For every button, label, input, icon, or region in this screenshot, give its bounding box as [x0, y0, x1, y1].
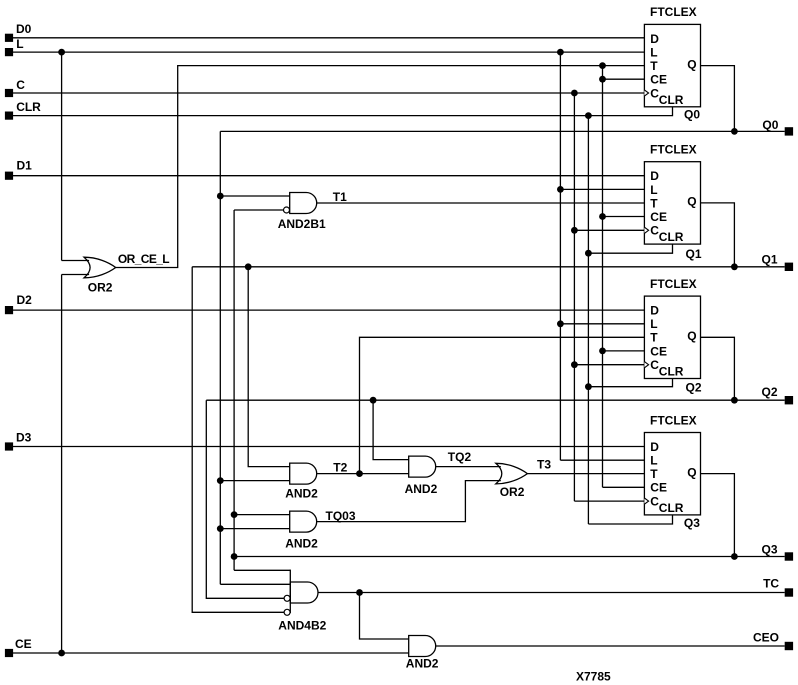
junction Q2/pin riser — [731, 397, 738, 404]
input pin CE — [5, 649, 13, 657]
wire Q3 line to pin Q3 — [234, 556, 785, 558]
junction CLR/U2 — [585, 250, 592, 257]
junction OR_CE_L bus top — [599, 62, 606, 69]
junction Q2 branch — [370, 397, 377, 404]
wire Q0 to AND2B1 top input — [220, 195, 289, 197]
junction Q0/AND2B1 — [217, 193, 224, 200]
junction OR_CE_L/U3.CE — [599, 348, 606, 355]
svg-text:CLR: CLR — [659, 501, 684, 515]
wire Q2 vertical to AND4B2 input 3 — [206, 400, 284, 598]
wire L to U4.L — [560, 459, 644, 461]
wire OR_CE_L to U2.CE — [603, 216, 645, 218]
svg-text:L: L — [650, 317, 657, 331]
wire CE net: pin CE to AND2 (CEO) bottom input — [13, 652, 409, 654]
svg-text:T: T — [650, 196, 658, 210]
svg-text:T3: T3 — [537, 457, 551, 471]
svg-text:TQ03: TQ03 — [326, 509, 356, 523]
wire L to U3.L — [560, 323, 644, 325]
svg-text:T1: T1 — [333, 190, 347, 204]
wire L to U2.L — [560, 188, 644, 190]
wire Q2 line to pin Q2 — [206, 399, 784, 401]
U1 clock input triangle — [644, 90, 648, 96]
junction L/U2.L — [557, 186, 564, 193]
AND4B2 input 3 bubble — [284, 595, 290, 601]
svg-text:Q1: Q1 — [762, 252, 778, 266]
svg-text:OR_CE_L: OR_CE_L — [118, 252, 169, 266]
output pin CEO — [785, 642, 793, 650]
wire L net: pin L to U1.L with risers to OR2 and FF L inputs — [13, 51, 644, 53]
svg-text:FTCLEX: FTCLEX — [650, 5, 697, 19]
wire Q0 bus vertical x=220 — [219, 131, 221, 584]
and-gate AND2 (TQ03) — [290, 511, 317, 532]
svg-text:D1: D1 — [17, 159, 33, 173]
wire L bus vertical x=560 — [559, 52, 561, 460]
flip-flop U2 FTCLEX body — [644, 162, 700, 244]
svg-text:T: T — [650, 331, 658, 345]
svg-text:CLR: CLR — [659, 93, 684, 107]
wire C to U3.C — [574, 364, 644, 366]
svg-text:AND2: AND2 — [285, 487, 318, 501]
wire D2 net: pin D2 to U3.D — [13, 309, 644, 311]
output pin Q0 — [785, 127, 793, 135]
wire Q0 to AND2 TQ03 bottom input — [220, 528, 289, 530]
or-gate OR2 (T3) — [496, 463, 528, 484]
wire U3.Q to Q2 line — [701, 337, 735, 400]
input pin D2 — [5, 306, 13, 314]
svg-text:AND2B1: AND2B1 — [278, 217, 326, 231]
svg-text:L: L — [650, 454, 657, 468]
wire T2 riser to U3.T — [360, 337, 645, 473]
wire CLR bus vertical x=588 — [587, 116, 589, 524]
junction Q3/pin riser — [731, 553, 738, 560]
flip-flop U1 FTCLEX body — [644, 24, 700, 106]
AND4B2 input 4 bubble — [284, 609, 290, 615]
svg-text:Q0: Q0 — [762, 118, 778, 132]
wire U1.Q to Q0 line — [701, 66, 735, 132]
flip-flop U4 FTCLEX body — [644, 433, 700, 515]
input pin L — [5, 48, 13, 56]
svg-text:L: L — [16, 37, 23, 51]
svg-text:Q3: Q3 — [762, 543, 778, 557]
wire TC net: AND4B2 output to pin TC — [318, 592, 785, 594]
junction Q1 branch — [245, 263, 252, 270]
junction C/U2.C — [571, 227, 578, 234]
svg-text:T: T — [650, 467, 658, 481]
wire C net: pin C to U1.C clock — [13, 92, 644, 94]
junction Q0/TQ03 — [217, 525, 224, 532]
wire Q0 line to pin Q0 — [220, 130, 784, 132]
wire OR_CE_L bus vertical x=602 — [602, 66, 604, 488]
U3 clock input triangle — [644, 362, 648, 368]
wire OR_CE_L net: OR2 output up and right to U1.T — [116, 66, 645, 268]
wire Q3 bus vertical x=234 — [233, 210, 235, 570]
svg-text:CE: CE — [650, 210, 667, 224]
input pin C — [5, 89, 13, 97]
wire CEO net: AND2 output to pin CEO — [436, 645, 785, 647]
svg-text:CE: CE — [650, 344, 667, 358]
svg-text:D: D — [650, 169, 659, 183]
svg-text:FTCLEX: FTCLEX — [650, 143, 697, 157]
svg-text:Q: Q — [687, 329, 696, 343]
svg-text:D: D — [650, 440, 659, 454]
wire TQ03 net: AND2 TQ03 output up to OR2 bottom input — [317, 481, 501, 522]
svg-text:CLR: CLR — [659, 365, 684, 379]
svg-text:FTCLEX: FTCLEX — [650, 277, 697, 291]
svg-text:AND4B2: AND4B2 — [278, 619, 326, 633]
wire U4.Q to Q3 line — [701, 474, 735, 557]
junction L bus top — [557, 49, 564, 56]
output pin Q1 — [785, 263, 793, 271]
and-gate AND2 (T2) — [290, 463, 317, 484]
wire D1 net: pin D1 to U2.D — [13, 175, 644, 177]
svg-text:AND2: AND2 — [405, 482, 438, 496]
junction OR_CE_L/U2.CE — [599, 213, 606, 220]
svg-text:CLR: CLR — [16, 100, 41, 114]
wire C to U4.C — [574, 500, 644, 502]
or-gate OR2 (OR_CE_L) — [84, 257, 116, 278]
input pin D0 — [5, 34, 13, 42]
wire C bus vertical x=574 — [573, 93, 575, 501]
junction Q3 line/bus — [231, 553, 238, 560]
svg-text:C: C — [16, 78, 25, 92]
input pin D1 — [5, 172, 13, 180]
wire Q1 line to pin Q1 — [192, 266, 785, 268]
U4 clock input triangle — [644, 498, 648, 504]
wire D0 net: pin D0 to U1.D — [13, 37, 644, 39]
junction TC branch — [356, 589, 363, 596]
svg-text:OR2: OR2 — [500, 485, 525, 499]
wire U2.Q to Q1 line — [701, 203, 735, 267]
svg-text:D2: D2 — [17, 293, 33, 307]
wire OR_CE_L to U3.CE — [603, 350, 645, 352]
junction Q1/pin riser — [731, 263, 738, 270]
junction CE/OR2 riser — [58, 650, 65, 657]
svg-text:OR2: OR2 — [88, 281, 113, 295]
junction Q0/pin riser — [731, 128, 738, 135]
junction L/OR2 riser — [58, 49, 65, 56]
wire Q0 to AND4B2 input 2 — [220, 583, 290, 585]
wire CLR to U3.CLR — [588, 379, 672, 387]
svg-text:Q2: Q2 — [686, 380, 702, 394]
svg-text:Q: Q — [687, 195, 696, 209]
svg-text:AND2: AND2 — [285, 536, 318, 550]
wire OR_CE_L to U4.CE — [603, 486, 645, 488]
svg-text:Q3: Q3 — [684, 516, 700, 530]
wire OR_CE_L to U1.CE — [603, 78, 645, 80]
junction Q0/T2 — [217, 477, 224, 484]
wire CE riser to OR2 bottom input — [61, 275, 63, 654]
wire D3 net: pin D3 to U4.D — [13, 446, 644, 448]
wire CLR to U2.CLR — [588, 244, 672, 253]
flip-flop U3 FTCLEX body — [644, 296, 700, 378]
junction C bus top — [571, 90, 578, 97]
wire Q3 to AND4B2 input 1 — [234, 569, 290, 571]
and-gate AND2 (CEO) — [409, 636, 436, 657]
wire TC drop to AND2 (CEO) top input — [360, 593, 409, 640]
svg-text:CLR: CLR — [659, 230, 684, 244]
wire T3 net: OR2 output to U4.T — [527, 473, 644, 475]
wire Q0 to AND2 T2 bottom input — [220, 480, 289, 482]
svg-text:FTCLEX: FTCLEX — [650, 413, 697, 427]
svg-text:L: L — [650, 183, 657, 197]
svg-text:CE: CE — [650, 73, 667, 87]
junction CLR/U3 — [585, 383, 592, 390]
svg-text:D3: D3 — [16, 431, 32, 445]
svg-text:D0: D0 — [16, 22, 32, 36]
and-gate AND2B1 (T1) — [290, 193, 317, 214]
junction L/U3.L — [557, 320, 564, 327]
AND2B1 input bubble — [284, 207, 290, 213]
output pin TC — [785, 588, 793, 596]
input pin D3 — [5, 442, 13, 450]
output pin Q2 — [785, 396, 793, 404]
and-gate AND2 (TQ2) — [409, 456, 436, 477]
wire T2 net: AND2 T2 output to AND2 TQ2 bottom input — [317, 473, 409, 475]
wire TQ2 net: AND2 TQ2 output to OR2 top input — [436, 466, 501, 468]
U2 clock input triangle — [644, 227, 648, 233]
junction OR_CE_L/U1.CE — [599, 76, 606, 83]
svg-text:AND2: AND2 — [406, 657, 439, 671]
svg-text:TQ2: TQ2 — [448, 450, 472, 464]
svg-text:TC: TC — [763, 577, 779, 591]
svg-text:Q: Q — [687, 57, 696, 71]
and-gate AND4B2 — [289, 570, 291, 613]
svg-text:L: L — [650, 46, 657, 60]
junction C/U3.C — [571, 361, 578, 368]
output pin Q3 — [785, 552, 793, 560]
svg-text:Q2: Q2 — [762, 385, 778, 399]
wire Q1 branch to AND2 T2 top input — [248, 267, 290, 467]
wire Q2 branch to AND2 TQ2 top input — [373, 400, 409, 459]
svg-text:CE: CE — [650, 481, 667, 495]
svg-text:Q: Q — [687, 465, 696, 479]
svg-text:T: T — [650, 59, 658, 73]
wire CLR net: pin CLR to U1.CLR bottom entry — [13, 107, 673, 116]
junction Q3/TQ03 — [231, 511, 238, 518]
wire Q3 to AND2 TQ03 top input — [234, 514, 290, 516]
junction CLR bus top — [585, 112, 592, 119]
svg-text:Q1: Q1 — [686, 247, 702, 261]
wire CLR to U4.CLR — [588, 515, 672, 524]
svg-text:T2: T2 — [333, 460, 347, 474]
wire C to U2.C — [574, 229, 644, 231]
svg-text:CE: CE — [15, 637, 32, 651]
wire L riser to OR2 top input — [61, 52, 63, 260]
svg-text:X7785: X7785 — [576, 670, 611, 684]
svg-text:CEO: CEO — [753, 631, 779, 645]
svg-text:Q0: Q0 — [684, 107, 700, 121]
wire Q1 vertical to AND4B2 input 4 — [192, 267, 284, 613]
junction T2 branch — [356, 470, 363, 477]
svg-text:D: D — [650, 32, 659, 46]
wire OR2 inputs stubs — [62, 260, 90, 262]
svg-text:D: D — [650, 304, 659, 318]
wire T1 net: AND2B1 output to U2.T — [317, 202, 645, 204]
wire Q3 to AND2B1 inverted input — [234, 209, 284, 211]
input pin CLR — [5, 112, 13, 120]
